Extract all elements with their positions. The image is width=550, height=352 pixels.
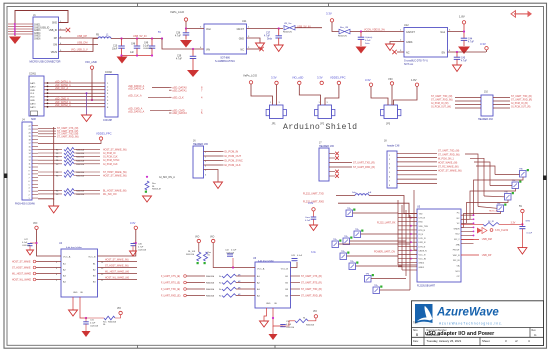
svg-text:0.1uF: 0.1uF	[22, 242, 28, 244]
svg-text:uSD_DATA2_A: uSD_DATA2_A	[55, 104, 71, 107]
wire U4b gnd	[264, 308, 267, 321]
svg-text:RI_N: RI_N	[419, 234, 424, 236]
svg-text:6: 6	[29, 181, 30, 183]
svg-text:VCC_N: VCC_N	[419, 255, 426, 257]
transistor QT1	[346, 210, 353, 217]
svg-text:16: 16	[29, 146, 31, 148]
svg-text:VsPs_LGO: VsPs_LGO	[243, 74, 258, 78]
wire U1 pin3 gnd	[247, 38, 261, 43]
svg-text:Date:: Date:	[413, 340, 419, 343]
svg-text:ST_UART_RXD_(R): ST_UART_RXD_(R)	[301, 295, 322, 298]
svg-text:3.3v: 3.3v	[311, 251, 316, 254]
wire U4a oe	[80, 297, 86, 318]
capacitor C45	[456, 52, 458, 57]
ground	[214, 182, 223, 189]
wire res to vio	[115, 315, 121, 318]
svg-text:4.7uF: 4.7uF	[468, 42, 474, 44]
svg-text:uSD_CLK_A: uSD_CLK_A	[55, 87, 68, 90]
ground	[180, 40, 192, 48]
svg-text:VIO_uSD: VIO_uSD	[85, 60, 97, 64]
svg-text:1uF: 1uF	[130, 52, 135, 54]
jumper JP1	[270, 105, 284, 119]
svg-text:VIO_uSD: VIO_uSD	[292, 76, 303, 80]
wires J10 left	[455, 97, 481, 99]
svg-text:JP1: JP1	[272, 123, 277, 126]
wire GND loop	[15, 11, 68, 37]
svg-text:FL232_UART_TXD: FL232_UART_TXD	[303, 192, 324, 195]
pin VIO u4b1	[197, 239, 200, 242]
svg-text:VBUS: VBUS	[51, 52, 58, 54]
svg-text:0.1uF: 0.1uF	[527, 233, 533, 235]
svg-text:R1: R1	[56, 149, 58, 151]
svg-text:AzureWave: AzureWave	[436, 307, 499, 319]
svg-text:SOT-xxx: SOT-xxx	[404, 63, 414, 66]
pin stubs J4	[32, 125, 38, 127]
svg-text:4.7uF: 4.7uF	[175, 36, 181, 38]
svg-text:0.1uF: 0.1uF	[231, 250, 237, 252]
svg-text:VsPs_LGO: VsPs_LGO	[170, 10, 185, 14]
wire uart txd 2	[369, 196, 417, 214]
svg-text:HOST_WAKE_(W): HOST_WAKE_(W)	[438, 162, 458, 165]
border zone tick top	[137, 3, 139, 6]
svg-text:ST_UART_TXD_(W): ST_UART_TXD_(W)	[431, 95, 453, 98]
svg-text:header 1X8: header 1X8	[387, 145, 400, 148]
wire 1.8V jp3	[394, 86, 418, 105]
svg-text:uSD_DATA0_A: uSD_DATA0_A	[55, 84, 71, 87]
capacitor C44	[461, 37, 468, 39]
svg-text:U11: U11	[242, 20, 247, 23]
U5 right stub pins	[461, 214, 474, 216]
wire oe to resistor	[86, 317, 104, 319]
svg-text:A z u r e W a v e T e c h n: A z u r e W a v e T e c h n o l o g i e …	[439, 321, 502, 325]
svg-text:R1: R1	[56, 157, 58, 159]
svg-text:RTS_N: RTS_N	[419, 230, 426, 232]
transistor QT8	[373, 287, 380, 294]
connector J10	[481, 95, 493, 116]
svg-text:Dela: Dela	[365, 43, 370, 45]
ground	[9, 37, 21, 45]
svg-text:USB_DM: USB_DM	[77, 42, 87, 45]
svg-text:RD2-0018: RD2-0018	[427, 333, 441, 337]
svg-text:R0603-M: R0603-M	[76, 172, 85, 174]
pin VIO u4b2	[212, 239, 215, 242]
svg-text:VDD_TXB: VDD_TXB	[419, 226, 429, 228]
svg-text:CON2: CON2	[105, 71, 113, 74]
connector J8	[387, 151, 397, 188]
transistor QT4	[332, 241, 339, 248]
wire DP	[59, 37, 99, 39]
resistor NL u4b 2	[204, 252, 208, 261]
svg-text:GND2/USB_ID: GND2/USB_ID	[34, 27, 50, 29]
svg-text:R0603-M: R0603-M	[206, 296, 215, 298]
ground	[269, 334, 278, 340]
svg-text:R1: R1	[56, 172, 58, 174]
pin 3.3V mid	[312, 208, 315, 211]
capacitor C31	[85, 318, 87, 322]
wire VIO jp3	[391, 85, 393, 105]
svg-text:C49: C49	[144, 43, 149, 45]
svg-text:GNDR: GNDR	[454, 228, 460, 230]
pin VIO oe	[119, 311, 122, 314]
svg-text:C48: C48	[131, 44, 136, 46]
svg-text:GI_PCM_SYNC: GI_PCM_SYNC	[103, 160, 120, 162]
svg-text:R0201-M: R0201-M	[186, 254, 195, 256]
svg-text:HD31_R: HD31_R	[489, 211, 498, 213]
wires U4b left rows	[186, 275, 205, 277]
wire 3.3V u4a	[98, 230, 136, 257]
svg-text:R0603-M: R0603-M	[76, 164, 85, 166]
transistor QT5	[340, 253, 347, 260]
AzureWave logo mark	[415, 304, 433, 326]
svg-text:DM: DM	[53, 45, 57, 47]
svg-text:R0603-M: R0603-M	[152, 189, 161, 191]
wire 3.3V jp1	[276, 85, 278, 105]
svg-text:C(dela): C(dela)	[365, 37, 372, 39]
capacitor C47	[35, 242, 37, 244]
svg-text:uSD_DATA1: uSD_DATA1	[172, 88, 187, 92]
svg-text:11: 11	[29, 164, 31, 166]
capacitor u4b oe	[280, 324, 286, 326]
svg-text:4.7uF: 4.7uF	[176, 59, 182, 61]
svg-text:MICRO USB CONNECTOR: MICRO USB CONNECTOR	[30, 61, 61, 64]
svg-text:Title: Title	[413, 321, 418, 324]
wires U4a left	[36, 261, 61, 263]
svg-text:R0603-M: R0603-M	[206, 276, 215, 278]
capacitor C41	[360, 32, 362, 38]
svg-text:17: 17	[29, 143, 31, 145]
junction	[91, 99, 93, 101]
svg-text:FSOUT: FSOUT	[453, 250, 461, 252]
resistor row	[38, 152, 62, 154]
svg-text:DAT3: DAT3	[30, 106, 36, 109]
resistor 2K	[483, 223, 499, 227]
svg-text:USB_DP: USB_DP	[77, 35, 87, 38]
wire uart rxd	[338, 203, 417, 217]
svg-text:18: 18	[29, 139, 31, 141]
svg-text:GND1: GND1	[406, 41, 413, 44]
wire USB DP	[461, 254, 479, 256]
varistor VR2	[339, 29, 345, 34]
svg-text:R0603-M: R0603-M	[76, 153, 85, 155]
svg-text:BL_HOST_WAKE_(W): BL_HOST_WAKE_(W)	[103, 189, 127, 192]
pin 3.3V jp2	[320, 81, 323, 84]
border fold mark left	[4, 174, 7, 179]
svg-text:Arduino Shield: Arduino Shield	[283, 122, 357, 132]
svg-text:R1: R1	[56, 164, 58, 166]
svg-text:R0603-N: R0603-N	[338, 36, 347, 38]
svg-text:ST_UART_RXD_(W): ST_UART_RXD_(W)	[431, 98, 453, 101]
svg-text:uSD_DATA3_A: uSD_DATA3_A	[55, 101, 71, 104]
wire 5V rail	[111, 38, 162, 40]
svg-text:DSR_N: DSR_N	[419, 242, 426, 244]
svg-text:GI_PCM_OUT_(W): GI_PCM_OUT_(W)	[431, 106, 451, 108]
svg-text:3.3V: 3.3V	[326, 12, 332, 16]
svg-text:GI_PCM_IN: GI_PCM_IN	[103, 153, 116, 155]
wire U4a gnd	[72, 297, 74, 310]
ground	[356, 47, 367, 54]
svg-text:Rx: Rx	[219, 289, 221, 291]
ground	[260, 321, 269, 327]
svg-text:uSD_DATA1_A: uSD_DATA1_A	[128, 88, 145, 91]
pin VIO u4b oe	[314, 315, 317, 318]
svg-text:DAT0: DAT0	[30, 102, 36, 105]
pin 5V	[521, 209, 524, 212]
svg-text:USB_DP: USB_DP	[482, 254, 492, 257]
svg-text:S-1118B33-U5T1U: S-1118B33-U5T1U	[215, 60, 235, 63]
svg-text:C0201-M: C0201-M	[286, 327, 295, 329]
svg-text:4-bit level shifter: 4-bit level shifter	[66, 246, 82, 249]
wires U5 left pins	[398, 213, 417, 215]
svg-text:Sheet: Sheet	[482, 339, 490, 343]
svg-text:GI_PCM_IN_(R): GI_PCM_IN_(R)	[511, 103, 528, 105]
svg-text:MC_2: MC_2	[454, 239, 460, 241]
resistor u4b oe	[295, 319, 308, 323]
svg-text:4: 4	[29, 188, 30, 190]
wire VIO_uSD jp2	[299, 85, 320, 105]
wires J4 top rows	[38, 127, 56, 129]
svg-text:ST_UART_TXD_(R): ST_UART_TXD_(R)	[301, 288, 322, 291]
svg-text:R1: R1	[56, 176, 58, 178]
svg-text:C0402-N: C0402-N	[143, 48, 152, 50]
net labels J6 pcm	[221, 151, 224, 153]
svg-text:U12: U12	[404, 24, 409, 27]
resistor row	[38, 163, 62, 165]
svg-text:WL_HOST_WAKE: WL_HOST_WAKE	[12, 272, 32, 275]
ground	[27, 250, 34, 255]
svg-text:W_PCM_ON_1: W_PCM_ON_1	[438, 159, 455, 161]
svg-text:15: 15	[29, 150, 31, 152]
ground	[49, 206, 59, 213]
wire 5V down	[521, 213, 523, 227]
svg-text:ST_RC_WAKE_(W): ST_RC_WAKE_(W)	[438, 166, 459, 169]
svg-text:ST_UART_RTS_(R): ST_UART_RTS_(R)	[301, 282, 322, 285]
svg-text:ST_HOST_WAKE_(W): ST_HOST_WAKE_(W)	[103, 171, 127, 174]
resistor row PCM group	[38, 148, 62, 150]
connector CON1	[29, 76, 44, 116]
wires bus to U5	[398, 264, 417, 266]
junction	[146, 176, 148, 178]
svg-text:VDD: VDD	[30, 97, 35, 99]
svg-text:C39: C39	[177, 56, 182, 58]
svg-text:GND5: GND5	[34, 36, 41, 38]
svg-text:HOST_ST_WAKE_(W): HOST_ST_WAKE_(W)	[103, 148, 127, 151]
svg-text:C0201-M: C0201-M	[226, 252, 235, 254]
svg-text:VIO: VIO	[117, 308, 121, 310]
svg-text:R0603-M: R0603-M	[206, 289, 215, 291]
svg-text:GH2: GH2	[526, 221, 531, 223]
svg-text:Conn: Conn	[305, 217, 311, 219]
svg-text:9: 9	[29, 170, 30, 172]
wire after VR1	[295, 27, 322, 29]
wires U4a right	[98, 261, 138, 263]
svg-text:13: 13	[29, 157, 31, 159]
pin VIO jp3	[390, 82, 393, 85]
wires J7 nc pins	[329, 153, 335, 155]
wire uart txd	[336, 195, 355, 197]
ground	[518, 248, 527, 255]
svg-text:3.3V: 3.3V	[365, 78, 371, 82]
ferrite bead	[355, 194, 369, 196]
wire USB_ID	[59, 29, 67, 31]
svg-text:Vout: Vout	[206, 28, 211, 31]
capacitor u4b right	[292, 258, 298, 260]
wire USB DM	[461, 239, 479, 241]
wire to VIN	[162, 39, 204, 50]
svg-text:FL232_UART_RXD: FL232_UART_RXD	[303, 200, 324, 203]
svg-text:uSD_CLK_A: uSD_CLK_A	[128, 95, 142, 98]
svg-text:GND6: GND6	[34, 39, 41, 41]
wire VIO_uSD down	[91, 69, 93, 100]
ground	[82, 115, 92, 122]
svg-text:C45: C45	[461, 58, 466, 60]
pin VIO_uSD jp2	[298, 81, 301, 84]
svg-text:CON1: CON1	[29, 73, 37, 76]
svg-text:DAT2: DAT2	[30, 85, 36, 88]
title block frame	[412, 301, 544, 346]
svg-text:VIO: VIO	[195, 236, 199, 239]
junction dots rail	[120, 37, 122, 39]
svg-text:VIO_USB_5_V: VIO_USB_5_V	[71, 49, 88, 52]
svg-text:1.8V: 1.8V	[459, 15, 465, 19]
svg-text:Rx: Rx	[219, 283, 221, 285]
junction dots U5 left	[410, 217, 412, 219]
svg-text:GI_PCM_SYNC: GI_PCM_SYNC	[224, 159, 243, 163]
connector J4	[22, 122, 32, 200]
svg-text:VIN: VIN	[206, 49, 210, 52]
svg-text:3.3V: 3.3V	[271, 76, 277, 80]
svg-text:GND4: GND4	[419, 263, 425, 265]
no-connect X	[392, 50, 396, 54]
svg-text:RXD: RXD	[419, 222, 424, 224]
wire cap bottom rail	[122, 55, 153, 57]
svg-text:R0603-M: R0603-M	[306, 325, 315, 327]
svg-text:Rx: Rx	[219, 296, 221, 298]
jumper JP3	[384, 105, 398, 119]
capacitor C49	[151, 39, 153, 47]
wire Vout 1.8V	[448, 31, 465, 33]
svg-text:J10: J10	[484, 91, 489, 94]
svg-text:USB_DM: USB_DM	[482, 238, 492, 241]
wire 3.3V down	[332, 22, 339, 32]
svg-text:ST_UART_TXD_(W): ST_UART_TXD_(W)	[438, 150, 460, 153]
svg-text:1: 1	[29, 198, 30, 200]
svg-text:F_UART_RTS_(E): F_UART_RTS_(E)	[161, 282, 180, 285]
svg-text:VCC_A: VCC_A	[63, 256, 71, 259]
svg-text:7: 7	[29, 177, 30, 179]
svg-text:Res: Res	[208, 252, 212, 254]
svg-text:C0201-M: C0201-M	[138, 250, 147, 252]
svg-text:of: of	[515, 339, 518, 343]
junction dots U5 right	[473, 214, 475, 216]
capacitor C37	[278, 29, 280, 36]
svg-text:HOST_ST_WAKE_(W): HOST_ST_WAKE_(W)	[103, 175, 127, 178]
pin 3.3V	[330, 19, 333, 22]
svg-text:GND3: GND3	[34, 30, 41, 32]
svg-text:ST_HOST_WAKE: ST_HOST_WAKE	[12, 266, 31, 269]
wire VDD33_FPC to J4	[38, 140, 101, 143]
svg-text:5V: 5V	[519, 205, 522, 208]
svg-text:3.3V: 3.3V	[130, 221, 136, 225]
svg-text:ST_UART_TXD_(R): ST_UART_TXD_(R)	[353, 161, 375, 164]
svg-text:CLK: CLK	[30, 93, 35, 95]
svg-text:Tuesday, January 26, 2021: Tuesday, January 26, 2021	[427, 339, 462, 343]
svg-text:Res: Res	[152, 183, 156, 185]
wires J7 uart	[329, 162, 352, 164]
wire VDD33_FPC jp2	[325, 85, 339, 105]
ground	[187, 70, 199, 77]
svg-text:0.1uF: 0.1uF	[305, 220, 311, 222]
svg-text:5: 5	[29, 184, 30, 186]
inductor L1	[98, 37, 111, 39]
wire J1 shield pins	[8, 23, 33, 25]
svg-text:ST_UART_RXD_(W): ST_UART_RXD_(W)	[57, 135, 79, 138]
svg-text:VDD33_FPC: VDD33_FPC	[96, 132, 112, 136]
svg-text:R0603-M: R0603-M	[76, 194, 85, 196]
wires cluster to bus	[353, 212, 399, 214]
capacitor C46	[133, 242, 136, 244]
svg-text:0.1uF: 0.1uF	[90, 323, 96, 325]
junction dots	[47, 82, 49, 84]
capacitor C48	[136, 39, 138, 47]
svg-text:8: 8	[29, 174, 30, 176]
svg-text:Vout: Vout	[440, 31, 445, 34]
svg-text:C44: C44	[468, 39, 473, 41]
wires J6	[204, 151, 222, 153]
wire U4b oe	[273, 308, 283, 326]
svg-text:GND5: GND5	[419, 267, 425, 269]
svg-text:ST_UART_CTS_(W): ST_UART_CTS_(W)	[57, 127, 79, 130]
wire VBUS	[59, 39, 99, 52]
svg-text:USB_ID: USB_ID	[49, 30, 58, 32]
svg-text:ST_UART_RXD_(W): ST_UART_RXD_(W)	[438, 154, 460, 157]
svg-text:Rx: Rx	[219, 276, 221, 278]
svg-text:GND: GND	[52, 23, 57, 25]
wire U2 nc	[397, 51, 404, 53]
svg-text:GND: GND	[239, 38, 245, 41]
pin 1.8V jp3	[415, 83, 418, 86]
pin 3.3V en	[485, 47, 488, 50]
svg-text:GI_PCM_CLK: GI_PCM_CLK	[103, 157, 118, 159]
svg-text:DTR_N: DTR_N	[419, 246, 426, 248]
junction VIN	[192, 48, 194, 50]
svg-text:GND: GND	[266, 303, 271, 305]
svg-text:FL232_UART_RX: FL232_UART_RX	[377, 222, 396, 225]
svg-text:GND: GND	[30, 100, 35, 102]
svg-text:NL_10K: NL_10K	[188, 251, 196, 253]
svg-text:VIO: VIO	[313, 311, 317, 313]
svg-text:F_UART_TXD_(E): F_UART_TXD_(E)	[161, 288, 180, 291]
svg-text:3.3V: 3.3V	[317, 76, 323, 80]
svg-text:3.3V: 3.3V	[480, 42, 486, 46]
wire U2 gnd	[390, 42, 404, 45]
svg-text:GI_PCM_OUT: GI_PCM_OUT	[224, 154, 241, 158]
ground	[82, 331, 91, 337]
pin VDD33_FPC jp2	[337, 81, 340, 84]
svg-text:14: 14	[29, 153, 31, 155]
svg-text:ST_UART_RXD_(R): ST_UART_RXD_(R)	[353, 166, 375, 169]
resistor row uart 2	[38, 175, 62, 177]
transistor QT7	[365, 276, 372, 283]
capacitor	[311, 216, 317, 218]
svg-text:R0603-M: R0603-M	[108, 322, 117, 324]
wire vio feed u4b	[198, 243, 200, 252]
ground	[117, 57, 128, 64]
svg-text:R0603-M: R0603-M	[76, 157, 85, 159]
svg-text:0.1uF: 0.1uF	[297, 255, 303, 257]
svg-text:4.7uF: 4.7uF	[264, 36, 270, 38]
svg-text:C10: C10	[113, 46, 118, 48]
svg-text:0.1uF: 0.1uF	[365, 40, 371, 42]
